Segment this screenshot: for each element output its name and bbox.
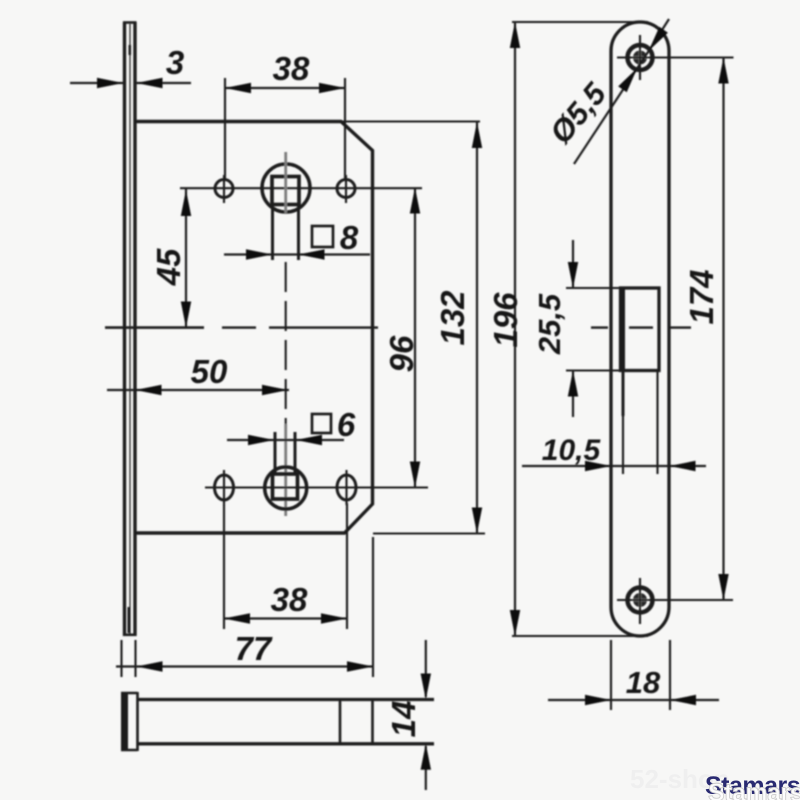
svg-text:3: 3 <box>166 44 184 81</box>
dimension 18 <box>548 640 719 710</box>
vertical centre line (dash) between spindles <box>285 262 287 430</box>
svg-text:8: 8 <box>340 219 359 256</box>
lower spindle circle <box>265 467 307 509</box>
faceplate inner line <box>129 24 131 634</box>
latch front thick edge <box>620 288 625 371</box>
faceplate bottom cap <box>123 633 137 636</box>
svg-text:77: 77 <box>235 630 273 667</box>
lower spindle square hole 6mm <box>273 474 298 499</box>
dimension 132 <box>472 122 482 534</box>
faceplate top cap <box>123 21 137 24</box>
latch box <box>621 288 660 371</box>
dimension 38 top <box>225 78 345 179</box>
lower left screw hole vertical tick <box>223 470 225 505</box>
horizontal centre line of lower holes <box>205 486 428 488</box>
upper spindle channel right wall <box>297 205 300 261</box>
svg-text:45: 45 <box>150 248 187 286</box>
svg-text:14: 14 <box>385 701 422 738</box>
right view axis centre line <box>591 326 691 328</box>
upper spindle square hole 8mm <box>272 177 299 205</box>
dimension 14 <box>421 640 431 790</box>
horizontal centre line of upper holes <box>180 187 422 189</box>
lower spindle channel right wall <box>294 432 297 474</box>
faceplate left edge <box>123 22 126 636</box>
case bottom extension line (for 132) <box>373 532 485 534</box>
lower spindle channel left wall <box>274 432 277 474</box>
dimension 25,5 <box>568 240 578 417</box>
bottom screw hole inner <box>633 593 647 607</box>
top screw hole inner <box>633 51 647 65</box>
svg-text:38: 38 <box>273 50 310 87</box>
bottom screw hole vertical tick <box>639 578 641 624</box>
dimension 8 (spindle slot) <box>224 249 370 259</box>
lock axis centre line <box>105 326 378 329</box>
dimension 77 <box>116 537 373 677</box>
faceplate right edge <box>133 22 136 636</box>
faceplate inner tick top <box>129 45 132 55</box>
top screw hole horizontal centre / 174 extension <box>617 56 734 58</box>
top screw hole <box>628 45 653 70</box>
upper left screw hole <box>215 180 233 198</box>
svg-text:6: 6 <box>337 406 356 443</box>
svg-text:25,5: 25,5 <box>532 293 567 355</box>
bottom view body bottom edge <box>138 742 435 745</box>
lower right screw hole oval <box>337 475 356 500</box>
bottom view body top edge <box>138 698 435 701</box>
faceplate inner tick bottom <box>128 607 131 633</box>
dimension 45 <box>181 188 191 327</box>
dimension 38 bottom <box>224 503 347 629</box>
square symbol for 6 <box>312 414 331 433</box>
dimension 10,5 <box>522 461 706 471</box>
upper right screw hole <box>337 180 355 198</box>
svg-text:50: 50 <box>191 353 228 390</box>
upper left screw hole vertical tick <box>223 175 225 203</box>
dimension 174 <box>718 58 728 601</box>
lower right screw hole vertical tick <box>345 470 347 505</box>
bottom screw hole <box>628 588 653 613</box>
bottom view faceplate block <box>121 692 138 751</box>
lock case outline <box>137 122 373 534</box>
lower left screw hole oval <box>215 475 234 500</box>
svg-text:96: 96 <box>383 335 420 372</box>
bottom view divider 1 <box>339 700 342 744</box>
svg-text:174: 174 <box>683 269 720 324</box>
svg-text:38: 38 <box>271 581 308 618</box>
upper right screw hole vertical tick <box>345 175 347 203</box>
bottom screw hole horizontal centre / 174 extension <box>617 599 733 601</box>
latch box right wall extension down <box>656 371 658 475</box>
case top extension line (for 132) <box>341 120 480 122</box>
latch box top extension (25,5) <box>566 287 620 289</box>
vertical centre line lower solid <box>284 424 287 516</box>
dimension 196 <box>510 22 648 636</box>
svg-text:196: 196 <box>487 292 524 348</box>
svg-text:18: 18 <box>626 665 661 700</box>
square symbol for 8 <box>312 226 333 247</box>
latch box left wall extension down <box>622 371 624 475</box>
dimension 6 (lower spindle slot) <box>227 435 344 445</box>
svg-text:Stamars: Stamars <box>708 779 800 800</box>
faceplate plate outline (stadium) <box>611 22 669 636</box>
latch box bottom extension (25,5) <box>566 369 620 371</box>
dimension 96 <box>410 188 420 488</box>
dimension 3 (faceplate thickness) <box>70 78 191 88</box>
upper spindle circle <box>262 164 310 212</box>
upper spindle vertical centre tick <box>284 152 287 213</box>
top screw hole vertical tick <box>639 35 641 80</box>
dimension 50 <box>107 385 289 395</box>
svg-text:132: 132 <box>434 290 471 346</box>
upper spindle channel left wall <box>271 205 274 261</box>
diameter 5,5 leader <box>574 19 669 164</box>
bottom view divider 2 <box>371 700 374 744</box>
svg-text:10,5: 10,5 <box>542 434 602 467</box>
